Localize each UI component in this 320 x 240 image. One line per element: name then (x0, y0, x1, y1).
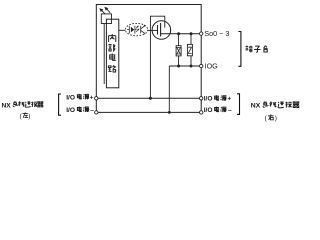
terminal: So0-3 output (200, 32, 203, 35)
wire: I/O power + line (96, 97, 201, 99)
photocoupler PC1 light arrows (136, 25, 139, 31)
wire: internal circuit to photocoupler (119, 29, 125, 31)
svg-text:): ) (275, 115, 277, 122)
wire: I/O power - line (96, 111, 201, 113)
svg-text:): ) (28, 113, 30, 120)
label: left I/O电源+ (66, 94, 93, 101)
svg-text:I/O: I/O (204, 96, 213, 103)
label: right I/O电源- (204, 107, 232, 114)
wire: right terminal rail (200, 4, 202, 112)
wire: top I/O power bus from left rail to right rail (96, 4, 201, 6)
wire: IOG line (169, 65, 199, 67)
svg-text:NX: NX (2, 102, 12, 109)
wire: IOG drop to I/O power - (168, 66, 170, 112)
label: right I/O电源+ (204, 95, 232, 102)
svg-text:–: – (228, 107, 232, 114)
svg-text:–: – (90, 107, 94, 114)
svg-text:NX: NX (251, 103, 261, 110)
junction node: drain feed on I/O power + line (149, 97, 152, 100)
junction node on IOG line (right) (190, 65, 193, 68)
wire: branch 1 lower lead (178, 56, 180, 66)
photocoupler PC1 detector side (141, 25, 145, 35)
transistor Q1 channel bar (160, 23, 162, 37)
svg-text:(: ( (20, 113, 23, 120)
wire: LED cathode lead down beside internal circuit box (103, 24, 105, 85)
LED emission arrow 2 (104, 7, 110, 13)
wire: branch 1 upper lead (178, 34, 180, 46)
label: (右) (265, 114, 278, 122)
transistor Q1 drain lead loop (150, 16, 164, 98)
junction node on output line (left) (177, 32, 180, 35)
svg-text:IOG: IOG (205, 62, 219, 71)
label: left NX总线连接器 (2, 101, 44, 109)
photocoupler PC1 LED side (127, 26, 137, 34)
label: 内部电路 (vertical) (108, 34, 116, 72)
LED indicator D1 (box with emission arrows) (101, 14, 111, 24)
wire: photocoupler to transistor gate (148, 29, 158, 31)
bracket: left NX bus connector group (59, 94, 61, 115)
photocoupler PC1 (dashed ellipse) (125, 23, 147, 35)
label: right NX总线连接器 (251, 102, 299, 110)
svg-text:(: ( (265, 115, 268, 122)
svg-text:I/O: I/O (66, 107, 75, 114)
diagnostic element Z2 (box with zener mark) (187, 44, 192, 55)
terminal: left I/O power - (95, 111, 98, 114)
terminal: IOG (200, 64, 203, 67)
wire: left NX bus connector rail (95, 4, 97, 112)
bracket: terminal block group (238, 32, 241, 67)
wire: branch 2 lower lead (190, 56, 192, 66)
junction node on IOG line (left) (177, 65, 180, 68)
svg-text:I/O: I/O (66, 94, 75, 101)
diagnostic element Z1 (box with cross) (176, 46, 181, 56)
label: left I/O电源- (66, 107, 94, 114)
transistor Q1 body circle (152, 21, 171, 40)
label: 端子台 (246, 46, 268, 53)
internal circuit block U1 (106, 19, 118, 88)
junction node on output line (right) (190, 32, 193, 35)
svg-text:+: + (90, 94, 94, 101)
junction node on I/O power - line (168, 111, 171, 114)
label: (左) (20, 112, 31, 120)
bracket: right NX bus connector group (237, 94, 240, 115)
terminal: right I/O power + (200, 97, 203, 100)
terminal: left I/O power + (95, 97, 98, 100)
terminal: right I/O power - (200, 111, 203, 114)
wire: output line from Q1 to So terminal (161, 33, 200, 35)
wire: branch 2 upper lead (190, 34, 192, 45)
svg-text:+: + (227, 96, 231, 103)
svg-text:So0 ~ 3: So0 ~ 3 (204, 29, 229, 38)
LED emission arrow 1 (99, 8, 105, 14)
transistor Q1 gate bar (157, 25, 159, 35)
svg-text:I/O: I/O (204, 107, 213, 114)
